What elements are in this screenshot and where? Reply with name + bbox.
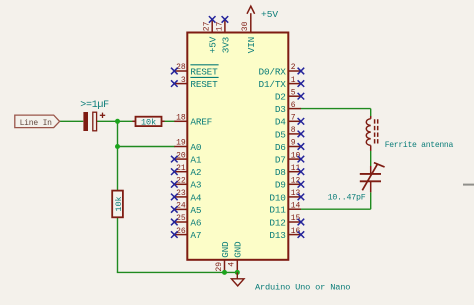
svg-text:Line In: Line In bbox=[20, 119, 53, 128]
svg-text:RESET: RESET bbox=[190, 79, 218, 90]
svg-text:Ferrite antenna: Ferrite antenna bbox=[385, 141, 454, 150]
svg-text:3: 3 bbox=[181, 76, 186, 85]
wire Line In to C1 bbox=[60, 120, 84, 122]
svg-text:D1/TX: D1/TX bbox=[259, 79, 287, 90]
pin 2 D0/RX (right) bbox=[259, 63, 305, 77]
svg-text:D13: D13 bbox=[269, 230, 286, 241]
svg-text:27: 27 bbox=[203, 21, 212, 31]
resistor 10k (horizontal) bbox=[132, 117, 164, 128]
+5V power symbol bbox=[247, 6, 255, 20]
pin 10 D7 (right) bbox=[275, 151, 304, 165]
svg-text:17: 17 bbox=[215, 21, 224, 31]
pin 13 D10 (right) bbox=[269, 189, 304, 203]
wire junction down left rail bbox=[117, 121, 119, 272]
svg-text:A5: A5 bbox=[190, 205, 201, 216]
svg-text:D10: D10 bbox=[269, 192, 286, 203]
svg-text:16: 16 bbox=[291, 227, 301, 236]
wire junction to pin 19 A0 bbox=[118, 146, 175, 148]
pin 17 3V3 (top) bbox=[215, 16, 231, 53]
junction at C1/R1 node bbox=[115, 119, 120, 124]
svg-text:11: 11 bbox=[291, 164, 301, 173]
svg-text:30: 30 bbox=[241, 21, 250, 31]
svg-text:10..47pF: 10..47pF bbox=[328, 194, 366, 203]
pin 21 A2 (left) bbox=[171, 164, 201, 178]
pin 19 A0 (left) bbox=[174, 139, 202, 153]
svg-text:D8: D8 bbox=[275, 167, 286, 178]
svg-text:A3: A3 bbox=[190, 180, 201, 191]
svg-text:AREF: AREF bbox=[190, 117, 212, 128]
svg-text:10k: 10k bbox=[114, 196, 124, 211]
pin 7 D4 (right) bbox=[275, 114, 304, 128]
svg-text:D12: D12 bbox=[269, 217, 285, 228]
wire pin D3 to ferrite antenna bbox=[300, 108, 370, 110]
pin 18 AREF (left) bbox=[174, 114, 212, 128]
svg-text:D2: D2 bbox=[275, 92, 286, 103]
svg-text:3V3: 3V3 bbox=[220, 36, 231, 53]
svg-text:D6: D6 bbox=[275, 142, 286, 153]
svg-text:GND: GND bbox=[233, 241, 244, 258]
svg-text:7: 7 bbox=[291, 114, 296, 123]
wire bottom rail to GND pins bbox=[117, 271, 238, 273]
svg-text:D5: D5 bbox=[275, 129, 286, 140]
pin 5 D2 (right) bbox=[275, 88, 304, 102]
junction at A0 node bbox=[115, 144, 120, 149]
pin 30 VIN (top) bbox=[241, 20, 257, 54]
pin 8 D5 (right) bbox=[275, 126, 304, 140]
pin 16 D13 (right) bbox=[269, 227, 304, 241]
resistor 10k (vertical) bbox=[112, 191, 124, 218]
svg-text:D3: D3 bbox=[275, 104, 286, 115]
wire ferrite antenna to C2 bbox=[370, 151, 372, 166]
pin 25 A6 (left) bbox=[171, 214, 202, 228]
pin 23 A4 (left) bbox=[171, 189, 202, 203]
svg-text:18: 18 bbox=[176, 114, 186, 123]
wire R1 to pin 18 bbox=[162, 120, 175, 122]
pin 15 D12 (right) bbox=[269, 214, 304, 228]
pin 26 A7 (left) bbox=[171, 227, 201, 241]
svg-text:GND: GND bbox=[220, 241, 231, 258]
pin 24 A5 (left) bbox=[171, 202, 202, 216]
capacitor C1 polarized bbox=[83, 112, 105, 131]
inductor L1 ferrite antenna bbox=[366, 116, 377, 151]
svg-text:10k: 10k bbox=[141, 118, 156, 128]
svg-text:D7: D7 bbox=[275, 155, 286, 166]
svg-text:14: 14 bbox=[291, 201, 301, 210]
svg-text:+5V: +5V bbox=[261, 9, 278, 20]
wire C1 to junction to R1 bbox=[97, 120, 136, 122]
svg-text:8: 8 bbox=[291, 126, 296, 135]
svg-text:4: 4 bbox=[228, 262, 237, 267]
svg-text:15: 15 bbox=[291, 214, 301, 223]
svg-text:RESET: RESET bbox=[190, 66, 218, 77]
svg-text:D11: D11 bbox=[269, 205, 286, 216]
capacitor C2 variable 10..47pF bbox=[360, 163, 385, 193]
svg-text:D4: D4 bbox=[275, 117, 286, 128]
pin 22 A3 (left) bbox=[171, 177, 202, 191]
svg-text:A1: A1 bbox=[190, 155, 201, 166]
pin 20 A1 (left) bbox=[171, 151, 202, 165]
svg-text:9: 9 bbox=[291, 139, 296, 148]
svg-text:A0: A0 bbox=[190, 142, 201, 153]
svg-text:A6: A6 bbox=[190, 217, 201, 228]
svg-text:+5V: +5V bbox=[208, 36, 219, 53]
global label "Line In" bbox=[15, 115, 60, 128]
svg-text:5: 5 bbox=[291, 88, 296, 97]
svg-text:2: 2 bbox=[291, 63, 296, 72]
svg-text:A4: A4 bbox=[190, 192, 201, 203]
svg-text:1: 1 bbox=[291, 76, 296, 85]
pin 1 D1/TX (right) bbox=[259, 76, 305, 90]
IC body Arduino Uno or Nano bbox=[187, 33, 288, 260]
svg-text:A2: A2 bbox=[190, 167, 201, 178]
svg-text:6: 6 bbox=[291, 101, 296, 110]
svg-text:>=1µF: >=1µF bbox=[80, 100, 109, 111]
svg-text:12: 12 bbox=[291, 177, 301, 186]
pin 6 D3 (right) bbox=[275, 101, 301, 115]
pin 29 GND (bottom) bbox=[215, 241, 231, 272]
wire C2 to corner to pin D11 bbox=[370, 192, 372, 209]
svg-text:A7: A7 bbox=[190, 230, 201, 241]
pin 11 D8 (right) bbox=[275, 164, 304, 178]
svg-text:29: 29 bbox=[215, 262, 224, 272]
svg-text:D0/RX: D0/RX bbox=[259, 66, 287, 77]
pin 3 RESET (left) bbox=[171, 76, 219, 90]
pin 27 +5V (top) bbox=[203, 16, 219, 53]
ground symbol bbox=[231, 272, 244, 286]
junction at GND pin 29 bbox=[222, 270, 227, 275]
svg-text:10: 10 bbox=[291, 151, 301, 160]
pin 9 D6 (right) bbox=[275, 139, 304, 153]
svg-text:VIN: VIN bbox=[246, 37, 257, 53]
junction at GND pin 4 bbox=[235, 270, 240, 275]
svg-text:D9: D9 bbox=[275, 180, 286, 191]
pin 14 D11 (right) bbox=[269, 201, 300, 215]
svg-text:19: 19 bbox=[176, 139, 186, 148]
pin 28 RESET (left) bbox=[171, 63, 219, 77]
pin 4 GND (bottom) bbox=[228, 241, 244, 272]
svg-text:Arduino Uno or Nano: Arduino Uno or Nano bbox=[255, 283, 350, 293]
svg-text:13: 13 bbox=[291, 189, 301, 198]
pin 12 D9 (right) bbox=[275, 177, 304, 191]
stray gray wire fragment right edge bbox=[463, 184, 474, 186]
